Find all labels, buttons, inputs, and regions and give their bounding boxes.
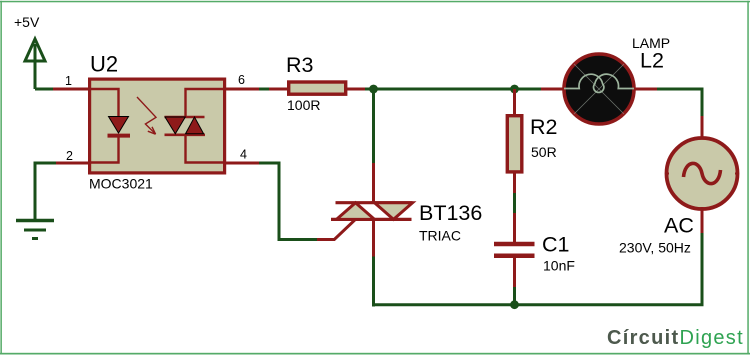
U2 internal LED wiring xyxy=(89,89,119,163)
junction node at R2 top xyxy=(510,85,519,94)
U2 photo-triac right triangle xyxy=(186,117,204,134)
svg-text:MOC3021: MOC3021 xyxy=(89,176,153,192)
wire R3 to lamp xyxy=(365,88,541,91)
pin 6 wire U2 xyxy=(224,88,259,91)
C1 bottom pin xyxy=(513,257,516,287)
resistor R2 body xyxy=(507,116,522,172)
wire C1 to bottom rail xyxy=(513,287,516,305)
svg-text:2: 2 xyxy=(66,149,73,163)
resistor R3 body xyxy=(289,82,346,94)
triac top bar xyxy=(336,201,413,204)
wire lamp to AC source xyxy=(657,89,702,116)
svg-text:C1: C1 xyxy=(542,233,569,257)
svg-text:R2: R2 xyxy=(530,115,557,139)
wire +5V to U2 pin1 xyxy=(35,88,53,91)
triac gate lead xyxy=(317,220,355,240)
svg-text:4: 4 xyxy=(240,148,247,162)
svg-text:R3: R3 xyxy=(286,53,314,77)
junction node bottom xyxy=(510,300,519,309)
lamp left pin xyxy=(541,88,564,91)
R3 left pin xyxy=(269,88,288,91)
triac BT136 symbol xyxy=(317,203,413,257)
svg-text:10nF: 10nF xyxy=(543,258,575,274)
pin 1 wire U2 xyxy=(53,88,89,91)
U2 internal photo-triac wiring xyxy=(186,89,225,163)
wire U2 pin4 to gate xyxy=(259,163,317,240)
lamp L2 body xyxy=(564,54,634,124)
AC source bottom pin xyxy=(701,207,704,233)
pin 4 wire U2 xyxy=(224,162,259,165)
wire R2 to C1 xyxy=(513,193,516,213)
AC source body xyxy=(667,138,738,209)
triac MT2 pin xyxy=(372,163,375,202)
wire U2 pin2 to ground xyxy=(35,163,56,219)
R2 bottom pin xyxy=(513,172,516,193)
triac MT1 pin xyxy=(372,219,375,256)
lamp filament xyxy=(564,74,634,92)
lamp diagonal hairlines xyxy=(574,64,624,114)
svg-text:6: 6 xyxy=(238,73,245,87)
U2 photo-triac bottom bar xyxy=(165,134,206,137)
svg-text:50R: 50R xyxy=(531,144,557,160)
C1 top pin xyxy=(513,213,516,242)
lamp right pin xyxy=(634,88,657,91)
U2 photo-triac top bar xyxy=(165,116,205,119)
opto-coupler U2 body xyxy=(90,79,225,173)
wire junction down to triac xyxy=(372,89,375,163)
svg-text:CírcuitDigest: CírcuitDigest xyxy=(607,327,744,349)
U2 internal LED diode xyxy=(109,117,129,134)
wire pin6 to R3 xyxy=(259,88,269,91)
svg-text:100R: 100R xyxy=(287,97,320,113)
svg-text:BT136: BT136 xyxy=(419,201,482,225)
svg-text:+5V: +5V xyxy=(14,14,40,30)
U2 LED cathode bar xyxy=(108,134,131,138)
bottom rail wire xyxy=(374,233,703,305)
ground xyxy=(16,221,54,239)
pin 2 wire U2 xyxy=(56,162,89,165)
svg-text:230V, 50Hz: 230V, 50Hz xyxy=(619,240,691,256)
svg-text:AC: AC xyxy=(664,214,694,238)
U2 photo-triac left triangle xyxy=(165,117,185,134)
AC side ticks xyxy=(665,173,739,175)
AC sine wave xyxy=(684,163,721,183)
wire triac to bottom rail xyxy=(372,257,375,307)
triac left triangle xyxy=(337,203,375,220)
svg-text:U2: U2 xyxy=(90,52,118,77)
junction node at R3/triac xyxy=(369,85,378,94)
capacitor C1 xyxy=(494,244,535,256)
AC source top pin xyxy=(701,116,704,140)
svg-text:1: 1 xyxy=(65,74,72,88)
R3 right pin xyxy=(346,88,365,91)
power terminal +5V arrow xyxy=(25,39,45,89)
triac right triangle xyxy=(375,203,413,220)
svg-text:L2: L2 xyxy=(640,49,664,73)
triac bottom bar xyxy=(331,218,412,221)
R2 top pin xyxy=(513,89,516,115)
U2 light emission arrow xyxy=(137,97,156,134)
svg-text:TRIAC: TRIAC xyxy=(419,228,461,244)
